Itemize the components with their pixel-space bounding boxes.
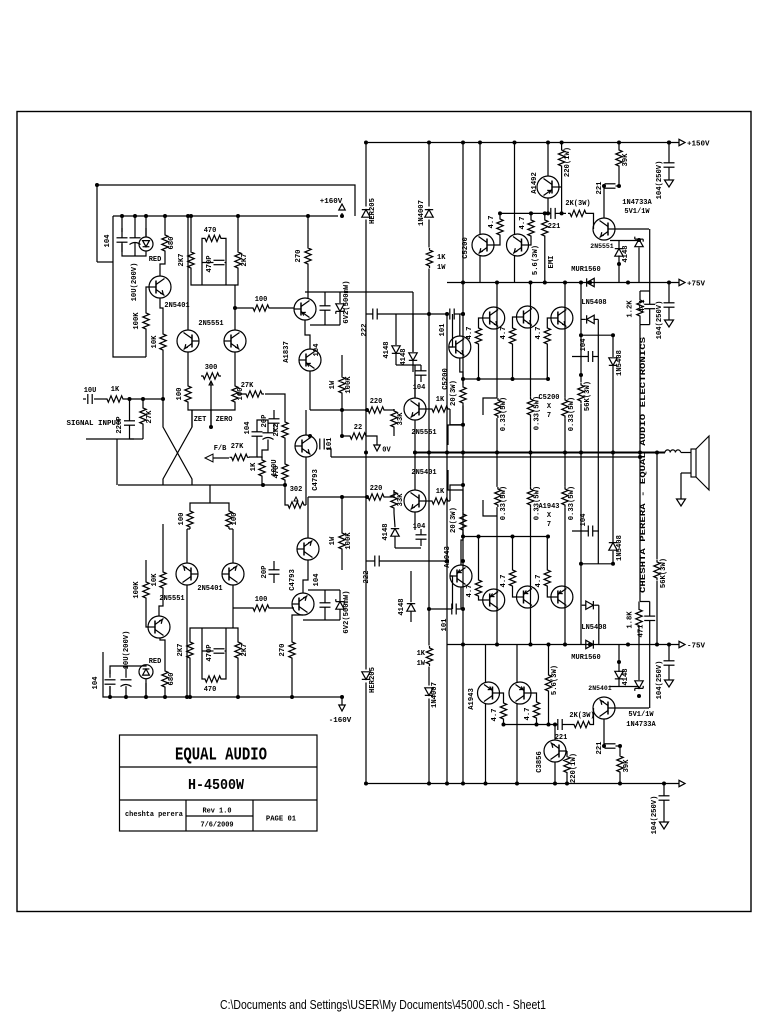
wire output line 2 — [331, 456, 640, 458]
svg-text:39K: 39K — [623, 759, 631, 773]
wire input line — [100, 398, 105, 400]
wire 1N4007 column e — [428, 699, 430, 784]
wire d1 bot — [494, 237, 501, 245]
resistor 39K t — [616, 148, 622, 168]
resistor 100 e1 bot — [187, 509, 193, 529]
svg-text:222: 222 — [361, 324, 369, 337]
capacitor 10U(200V) top — [130, 237, 141, 239]
wire vas top bus — [305, 291, 355, 293]
wire bb2b — [512, 537, 514, 569]
wire ob2b — [512, 346, 514, 379]
wire 56 b — [544, 238, 546, 283]
wire 22 r — [368, 436, 377, 445]
svg-text:CHESHTA PERERA - EQUAL AUDIO E: CHESHTA PERERA - EQUAL AUDIO ELECTRONICS — [640, 336, 648, 593]
wire bus drop — [117, 484, 119, 486]
resistor 0.33(5W) b1 — [495, 487, 501, 507]
wire 270 b b — [291, 660, 293, 697]
wire q19a bot — [186, 585, 188, 697]
wire o4 jog — [483, 500, 497, 516]
title row line 2 — [120, 799, 318, 801]
resistor 27K vas — [244, 391, 264, 397]
svg-text:300: 300 — [205, 364, 218, 372]
wire drv jog — [448, 405, 463, 445]
wire HER205 column a — [365, 143, 367, 207]
wire murcol join b — [582, 563, 613, 565]
wire 56 t — [544, 213, 546, 218]
svg-text:470: 470 — [204, 227, 217, 235]
svg-text:4.7: 4.7 — [524, 708, 532, 721]
power terminal -160V — [339, 705, 345, 711]
wire led leads — [145, 228, 147, 237]
transistor C5200 driver Q12 — [449, 336, 471, 358]
svg-text:20P: 20P — [261, 414, 269, 428]
capacitor 104(250V) r1 — [664, 162, 675, 164]
svg-text:220(1W): 220(1W) — [570, 753, 578, 783]
svg-text:4148: 4148 — [622, 245, 630, 262]
wire mt link — [396, 364, 421, 366]
resistor 220 m1 — [366, 407, 386, 413]
svg-text:20(3W): 20(3W) — [450, 380, 458, 406]
wire output column 3a — [564, 283, 566, 398]
resistor 100 e2 bot — [226, 509, 232, 529]
svg-text:104: 104 — [580, 338, 588, 352]
wire HER205 column b — [365, 220, 367, 670]
svg-text:HER205: HER205 — [369, 198, 377, 224]
wire -75V rail — [447, 644, 679, 646]
diode 4148 t — [615, 249, 623, 257]
wire 270 top lead — [307, 216, 309, 246]
resistor 4.7 o3 — [544, 326, 550, 346]
resistor 20(3W) — [460, 385, 466, 405]
resistor 56K(3W) b — [654, 560, 660, 580]
wire b1 bot — [503, 721, 505, 725]
wire mt link2 — [414, 365, 416, 398]
transistor C4793 Q20 — [297, 538, 319, 560]
resistor 1.8K b — [636, 608, 642, 628]
wire ob1 — [479, 318, 484, 326]
wire 1N4007 column a — [428, 143, 430, 207]
wire left col2 — [113, 216, 146, 357]
resistor 4.7 d1 — [497, 217, 503, 237]
svg-text:1W: 1W — [417, 660, 426, 668]
svg-text:2N5401: 2N5401 — [164, 302, 189, 310]
wire m2 — [308, 496, 367, 498]
svg-text:4.7: 4.7 — [535, 575, 543, 588]
wire box bottom t — [640, 324, 650, 326]
wire 220b t — [566, 751, 568, 755]
resistor 56K(3W) t — [578, 383, 584, 403]
svg-text:A1943: A1943 — [444, 546, 452, 568]
diode HER205 bot — [362, 672, 370, 680]
wire q7 b — [426, 500, 431, 502]
wire c3856 e — [554, 762, 556, 784]
title divider 1 — [185, 800, 187, 831]
wire bbase bus — [463, 536, 547, 538]
diode LN5408 t — [587, 315, 595, 323]
wire predrv col1b b — [485, 704, 487, 784]
wire left top rail — [97, 185, 355, 262]
wire 2k7 join b — [190, 628, 238, 640]
resistor 4.7 o2 — [509, 326, 515, 346]
wire m1 — [310, 409, 367, 411]
wire ob1b — [478, 346, 480, 379]
transistor C5200 O2 — [517, 306, 539, 328]
wire e node b — [190, 503, 229, 509]
wire +75V rail — [447, 282, 679, 284]
resistor 1K fb — [259, 458, 265, 478]
wire q2 base link — [191, 410, 193, 427]
svg-text:104: 104 — [92, 676, 100, 690]
wire predrv col2b b — [516, 704, 518, 784]
capacitor 470P top — [214, 259, 225, 261]
ground r4 — [660, 822, 669, 829]
svg-text:1.2K: 1.2K — [627, 300, 635, 318]
resistor 1K input — [105, 396, 125, 402]
wire mb link — [395, 547, 421, 549]
svg-text:1N4007: 1N4007 — [418, 200, 426, 226]
wire 100K top b — [145, 560, 147, 580]
transistor 2N5401 Q7 — [404, 490, 426, 512]
wire 39kb — [619, 774, 621, 784]
wire 1N4007 column c — [428, 269, 430, 646]
wire q20 up — [307, 497, 309, 538]
wire e node — [188, 404, 235, 410]
power terminal -150V — [679, 780, 685, 786]
transistor 2N5551 Q2b — [224, 330, 246, 352]
capacitor 101 mid-b — [451, 604, 453, 615]
svg-text:20(3W): 20(3W) — [450, 507, 458, 533]
svg-text:6V2(500mW): 6V2(500mW) — [343, 590, 351, 633]
wire q19b emitter — [232, 529, 234, 563]
wire bias column A — [446, 314, 448, 784]
ground r3 — [665, 680, 674, 687]
svg-text:100: 100 — [255, 296, 268, 304]
wire vas top bus b — [303, 619, 340, 621]
svg-text:HER205: HER205 — [369, 667, 377, 693]
wire q7 e — [414, 453, 416, 491]
wire line2 bend — [327, 449, 332, 457]
transistor 2N5401 Q19b — [222, 563, 244, 585]
svg-text:104: 104 — [580, 513, 588, 527]
svg-text:1K: 1K — [436, 488, 445, 496]
wire box col t — [649, 229, 651, 304]
svg-text:100: 100 — [231, 513, 239, 526]
svg-text:104: 104 — [313, 343, 321, 357]
wire c3856 b — [566, 750, 568, 752]
wire 100K bottom — [145, 331, 147, 357]
svg-text:220P: 220P — [116, 416, 124, 434]
svg-text:1K: 1K — [250, 462, 258, 471]
svg-text:EQUAL AUDIO: EQUAL AUDIO — [175, 745, 267, 766]
svg-text:RED: RED — [149, 256, 162, 264]
diode 4148 mt1 — [392, 346, 400, 354]
wire 1n5408 col t — [612, 385, 614, 453]
resistor 33K m1 — [391, 409, 397, 429]
wire 270 t b — [292, 615, 303, 640]
wire q7 c — [414, 512, 416, 530]
wire q11 c — [603, 186, 605, 219]
capacitor 104 input bot — [105, 679, 116, 681]
svg-text:10U(200V): 10U(200V) — [123, 631, 131, 670]
resistor 0.33(5W) t3 — [562, 398, 568, 418]
wire a1492 e — [547, 143, 549, 177]
wire box col b3 — [649, 621, 651, 645]
resistor 220(1W) b — [564, 755, 570, 775]
svg-text:+160V: +160V — [320, 198, 343, 206]
LED RED bot — [139, 665, 153, 679]
wire bdrv e — [461, 532, 463, 565]
svg-text:A1943: A1943 — [468, 688, 476, 710]
potentiometer 300 ZET ZERO — [201, 373, 221, 379]
wire cap stub ab — [109, 686, 111, 697]
wire 100 to A1837 — [271, 307, 294, 309]
svg-text:221: 221 — [555, 734, 568, 742]
resistor 10K bot — [160, 570, 166, 590]
transistor 2N5551 Q2a — [177, 330, 199, 352]
wire box col b — [649, 645, 651, 709]
resistor 4.7 o4 — [475, 578, 481, 598]
inductor L1 — [665, 450, 681, 453]
capacitor 221 t2 — [605, 183, 616, 185]
svg-text:1K: 1K — [111, 386, 120, 394]
wire 100k top lead — [341, 355, 343, 375]
wire predrv col1 — [479, 143, 481, 235]
wire q1 base — [146, 287, 150, 311]
svg-text:1W: 1W — [329, 380, 337, 389]
wire bdrv jog — [448, 470, 463, 512]
capacitor 104(250V) r3 — [664, 660, 675, 662]
title row line 1 — [120, 766, 318, 768]
svg-text:1.8K: 1.8K — [627, 611, 635, 629]
svg-text:PAGE 01: PAGE 01 — [266, 816, 297, 824]
svg-text:4.7: 4.7 — [466, 327, 474, 340]
wire cap stub a — [121, 216, 123, 238]
wire 2k7 bot leads — [189, 660, 191, 697]
wire pot r — [305, 457, 307, 505]
resistor 270 top — [305, 246, 311, 266]
resistor 2K7 tl — [188, 250, 194, 270]
resistor 100 mid-h — [251, 305, 271, 311]
wire predrv col1b — [479, 256, 481, 283]
wire c4793 col — [305, 410, 307, 435]
wire bb3b — [546, 537, 548, 569]
power terminal +160V — [339, 204, 345, 210]
wire q20-q21 — [303, 560, 308, 593]
capacitor 104 murcol b — [587, 526, 589, 537]
wire output column 2b — [530, 417, 532, 487]
svg-text:A1837: A1837 — [283, 341, 291, 363]
wire 470b2 b — [225, 650, 227, 652]
power terminal +150V — [679, 139, 685, 145]
wire 220 t — [561, 143, 563, 149]
wire 56K column top b — [580, 404, 582, 645]
svg-text:C5200: C5200 — [462, 237, 470, 259]
capacitor 20P b — [269, 569, 280, 571]
wire 10K top b — [162, 524, 164, 570]
svg-text:100K: 100K — [133, 312, 141, 330]
svg-text:20P: 20P — [261, 565, 269, 579]
wire q16 e bus — [610, 686, 639, 688]
svg-text:1K: 1K — [417, 650, 426, 658]
wire cap stub d — [164, 216, 166, 233]
svg-text:2K7: 2K7 — [241, 644, 249, 657]
svg-text:10K: 10K — [151, 335, 159, 349]
svg-text:270: 270 — [279, 644, 287, 657]
wire output column 2c — [530, 507, 532, 644]
wire 470 loop2 b — [202, 650, 214, 652]
svg-text:220: 220 — [370, 485, 383, 493]
diode 4148 mb2 — [407, 604, 415, 612]
svg-text:A1492: A1492 — [531, 172, 539, 194]
capacitor 222 mid-b — [374, 556, 376, 567]
svg-text:22: 22 — [354, 424, 362, 432]
wire 10K bottom — [162, 352, 164, 399]
svg-text:27K: 27K — [241, 382, 254, 390]
capacitor 221 b1 — [557, 719, 559, 730]
svg-text:2K7: 2K7 — [241, 254, 249, 267]
diode 4148 mt2 — [409, 353, 417, 361]
svg-text:1W: 1W — [329, 536, 337, 545]
svg-text:4.7: 4.7 — [488, 216, 496, 229]
svg-text:0V: 0V — [382, 447, 391, 455]
svg-text:101: 101 — [441, 618, 449, 632]
svg-text:2K7: 2K7 — [178, 254, 186, 267]
svg-text:2N5551: 2N5551 — [590, 243, 614, 250]
wire q6 e — [414, 420, 416, 453]
capacitor 222 mid-t — [372, 309, 374, 320]
resistor 27K fb — [230, 454, 250, 460]
wire 100 to C4793 b — [271, 607, 294, 609]
svg-text:1N5408: 1N5408 — [616, 535, 624, 561]
diode 1N4007 top — [425, 210, 433, 218]
svg-text:100K: 100K — [345, 532, 353, 550]
svg-text:1K: 1K — [437, 254, 446, 262]
wire 56b b — [548, 693, 550, 725]
capacitor 10U(200V) bot — [121, 679, 132, 681]
diode 1N4007 bot — [425, 688, 433, 696]
transistor A1943 driver Q17 — [450, 565, 472, 587]
resistor 470 top — [203, 235, 223, 241]
svg-text:220: 220 — [370, 398, 383, 406]
svg-text:104(250V): 104(250V) — [656, 661, 664, 700]
resistor 100K bot — [143, 580, 149, 600]
wire fb net3 — [262, 440, 268, 459]
wire output line — [413, 452, 665, 454]
wire vas bot bus b — [308, 589, 340, 591]
svg-text:4.7: 4.7 — [466, 585, 474, 598]
wire input node — [125, 398, 163, 400]
wire fb net0 — [257, 420, 268, 433]
wire left +160V rail — [113, 215, 338, 217]
svg-text:33K: 33K — [397, 412, 405, 426]
wire cross 2 — [163, 410, 192, 485]
svg-text:56K(3W): 56K(3W) — [584, 381, 592, 411]
wire o1 jog — [483, 398, 497, 415]
wire ob3 — [547, 318, 551, 326]
ground 0V — [374, 445, 380, 451]
diode LN5408 b — [586, 601, 594, 609]
wire drv bus — [500, 212, 551, 214]
svg-text:101: 101 — [439, 323, 447, 337]
resistor 39K b — [617, 754, 623, 774]
svg-text:4.7: 4.7 — [535, 327, 543, 340]
svg-text:C5200: C5200 — [442, 368, 450, 390]
capacitor 104(250V) r2 — [664, 302, 675, 304]
svg-text:EMI: EMI — [548, 256, 556, 269]
transistor A1943 O6 — [551, 586, 573, 608]
wire 27k lead — [238, 393, 244, 395]
wire 101b r — [456, 608, 463, 610]
capacitor 104 vas — [320, 305, 331, 307]
wire left bottom rail — [103, 652, 330, 697]
wire vas bot bus — [310, 324, 340, 326]
wire 220 b — [561, 168, 563, 213]
resistor 2K2 — [282, 420, 288, 440]
wire 100kb — [341, 497, 343, 531]
wire ret stub — [130, 438, 144, 440]
wire q16 c bus — [615, 707, 650, 709]
svg-text:221: 221 — [596, 181, 604, 195]
wire fb net — [249, 436, 257, 457]
wire vas links — [265, 394, 285, 420]
wire cross 1 — [163, 399, 192, 485]
wire 470 loop — [202, 238, 203, 285]
wire bias column B b — [462, 406, 464, 512]
svg-text:-160V: -160V — [329, 717, 352, 725]
resistor 27K input — [140, 406, 146, 426]
resistor 1K q6 — [430, 406, 450, 412]
capacitor 10U input — [87, 394, 89, 404]
wire box col t2 — [649, 309, 651, 325]
svg-text:470: 470 — [204, 686, 217, 694]
wire 470b — [223, 238, 226, 285]
svg-text:470P: 470P — [206, 644, 214, 662]
power terminal +75V — [679, 279, 685, 285]
wire 101b l — [429, 608, 452, 610]
wire tail — [210, 410, 212, 427]
wire -150V bottom rail — [366, 783, 679, 785]
wire predrv col1 b — [485, 645, 487, 683]
transistor A1492 Q10 — [537, 176, 559, 198]
wire 4148 col — [412, 292, 414, 352]
capacitor 104 fb — [252, 431, 263, 433]
wire q19 emitters — [186, 529, 188, 563]
resistor 0.33(5W) b2 — [527, 487, 533, 507]
svg-text:220(1W): 220(1W) — [564, 147, 572, 177]
wire 292 link — [355, 291, 413, 293]
svg-text:LN5408: LN5408 — [581, 624, 606, 632]
svg-text:4148: 4148 — [622, 668, 630, 685]
resistor 5.6(3W) — [542, 218, 548, 238]
wire output column 1b — [496, 418, 498, 487]
capacitor 104 murcol t — [587, 351, 589, 362]
resistor 22 — [348, 433, 368, 439]
resistor 270 bot — [289, 640, 295, 660]
wire b2 bot — [536, 720, 538, 725]
svg-text:RED: RED — [149, 658, 162, 666]
wire bdrv base col — [451, 576, 453, 609]
wire ob2 — [513, 317, 518, 326]
wire 222b r — [379, 560, 447, 562]
svg-text:10K: 10K — [151, 573, 159, 587]
resistor 680 bot — [162, 669, 168, 689]
wire 100k bot lead — [341, 395, 343, 410]
wire 1n5408 col b — [612, 453, 614, 524]
resistor 2K7 tr — [235, 250, 241, 270]
svg-text:4148: 4148 — [383, 341, 391, 358]
wire 470b b — [223, 628, 226, 679]
resistor 1K 1W top — [426, 248, 432, 268]
